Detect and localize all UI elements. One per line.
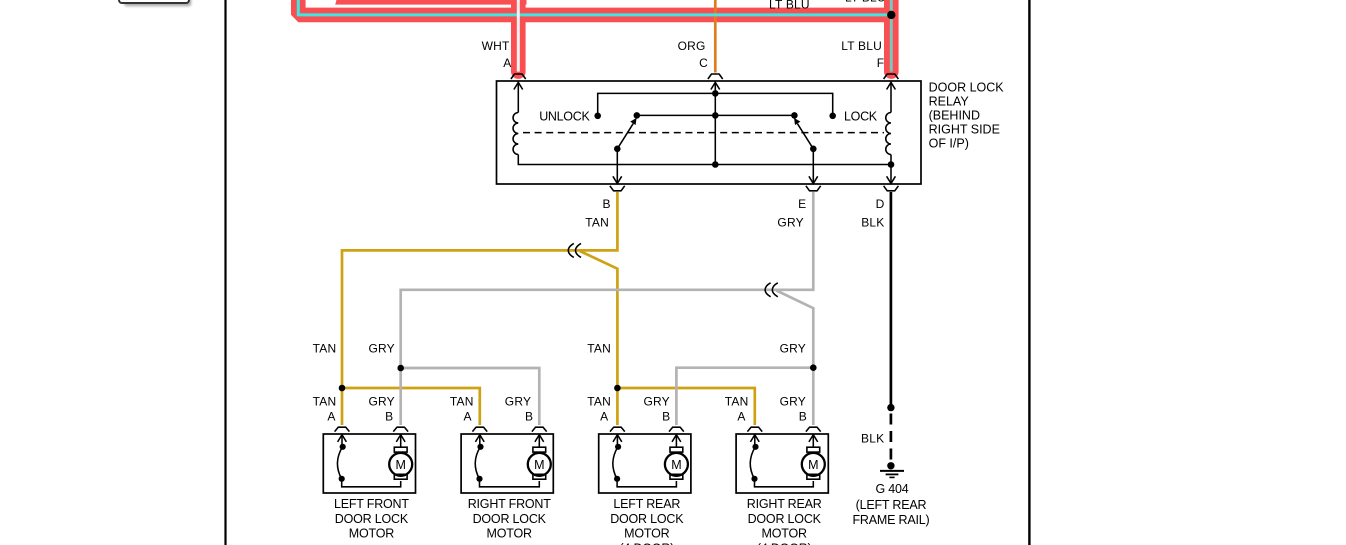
wire GRY from pin E: down, left, down to LF motor pin B bbox=[401, 192, 814, 425]
wire TAN from pin B: down, left, down to LF motor bbox=[342, 192, 617, 425]
node TAN rear branch bbox=[614, 385, 621, 392]
svg-text:TAN: TAN bbox=[450, 395, 474, 409]
svg-text:MOTOR: MOTOR bbox=[762, 527, 807, 541]
svg-text:A: A bbox=[327, 410, 335, 424]
svg-text:GRY: GRY bbox=[369, 342, 395, 356]
motor M4 RIGHT REAR DOOR LOCK MOTOR bbox=[736, 427, 828, 493]
node lock contact bbox=[829, 113, 836, 120]
center vertical bbox=[714, 93, 716, 164]
wire TAN branch to RF motor pin A bbox=[342, 388, 480, 425]
node unlock contact bbox=[594, 113, 601, 120]
pin A arrow bbox=[514, 82, 523, 89]
svg-text:B: B bbox=[799, 410, 807, 424]
coil-left bottom lead bbox=[517, 155, 519, 165]
svg-text:B: B bbox=[662, 410, 670, 424]
svg-text:TAN: TAN bbox=[313, 342, 337, 356]
switch arm left bbox=[617, 124, 633, 149]
connector arc pin E bbox=[806, 186, 821, 191]
wire ORG vertical to pin C bbox=[714, 0, 717, 73]
svg-text:LOCK: LOCK bbox=[844, 109, 878, 123]
svg-text:GRY: GRY bbox=[780, 395, 806, 409]
svg-text:RIGHT REAR: RIGHT REAR bbox=[747, 497, 822, 511]
wire BLK dashed section bbox=[890, 414, 893, 462]
svg-text:LT BLU: LT BLU bbox=[845, 0, 886, 5]
wire TAN branch: splice diagonal down to rear motors bbox=[580, 251, 618, 425]
svg-text:LEFT FRONT: LEFT FRONT bbox=[334, 497, 409, 511]
svg-text:UNLOCK: UNLOCK bbox=[539, 109, 590, 123]
motor M2 RIGHT FRONT DOOR LOCK MOTOR bbox=[461, 427, 553, 493]
node middle-rail right bbox=[791, 112, 798, 119]
node BLK wire bbox=[887, 404, 894, 411]
wire TAN branch to RR motor pin A bbox=[617, 388, 754, 425]
relay coil L2 (right, lock) bbox=[886, 113, 891, 155]
wire GRY branch: splice diagonal down to rear motors bbox=[776, 290, 813, 425]
svg-text:F: F bbox=[877, 56, 885, 70]
highlighted wire (top edge, cut off) bbox=[335, 0, 526, 5]
svg-text:(4 DOOR): (4 DOOR) bbox=[619, 541, 674, 545]
wire GRY branch to RF motor pin B bbox=[401, 368, 540, 425]
pin B drop from switch bbox=[616, 149, 618, 184]
pin A lead into coil bbox=[517, 82, 519, 112]
svg-text:TAN: TAN bbox=[313, 395, 337, 409]
svg-text:M: M bbox=[534, 458, 544, 472]
node switch-right pivot bbox=[810, 146, 817, 153]
pin E arrow bbox=[809, 176, 818, 183]
motor M3 LEFT REAR DOOR LOCK MOTOR bbox=[599, 427, 691, 493]
svg-text:BLK: BLK bbox=[861, 432, 884, 446]
relay actuation dashed line bbox=[523, 132, 884, 134]
svg-text:ORG: ORG bbox=[678, 39, 706, 53]
node TAN front branch bbox=[339, 385, 346, 392]
svg-text:M: M bbox=[808, 458, 818, 472]
relay U1 DOOR LOCK RELAY box bbox=[497, 81, 922, 184]
svg-text:GRY: GRY bbox=[644, 395, 670, 409]
connector arc pin F bbox=[884, 74, 899, 79]
connector arc pin C bbox=[708, 74, 723, 79]
splice symbol (( on TAN wire bbox=[568, 243, 574, 257]
svg-text:DOOR LOCK: DOOR LOCK bbox=[748, 512, 822, 526]
svg-text:MOTOR: MOTOR bbox=[487, 527, 532, 541]
middle rail bbox=[637, 114, 795, 116]
wire LT BLU (cyan core) horizontal run bbox=[298, 0, 891, 15]
switch arm left arrowhead bbox=[630, 118, 636, 125]
node coil / bottom rail bbox=[888, 161, 895, 168]
svg-text:M: M bbox=[671, 458, 681, 472]
svg-text:(LEFT REAR: (LEFT REAR bbox=[856, 498, 927, 512]
bottom rail bbox=[518, 164, 891, 166]
svg-text:RIGHT FRONT: RIGHT FRONT bbox=[468, 497, 552, 511]
wire BLK from pin D down bbox=[890, 192, 893, 408]
svg-text:A: A bbox=[503, 56, 511, 70]
node pin-C / top rail bbox=[712, 90, 719, 97]
svg-text:D: D bbox=[876, 197, 885, 211]
svg-text:LT BLU: LT BLU bbox=[841, 39, 882, 53]
svg-text:LT BLU: LT BLU bbox=[769, 0, 810, 12]
node center / middle rail bbox=[712, 112, 719, 119]
svg-text:DOOR LOCK: DOOR LOCK bbox=[610, 512, 684, 526]
node GRY rear branch bbox=[810, 364, 817, 371]
svg-text:TAN: TAN bbox=[587, 342, 611, 356]
svg-text:B: B bbox=[385, 410, 393, 424]
connector arc pin A bbox=[511, 74, 526, 79]
svg-text:MOTOR: MOTOR bbox=[349, 527, 394, 541]
highlight band: LT BLU wire corner-to-junction bbox=[298, 0, 891, 15]
node switch-left pivot bbox=[614, 146, 621, 153]
pin D drop bbox=[890, 165, 892, 184]
svg-text:A: A bbox=[600, 410, 608, 424]
pin C stem bbox=[714, 82, 716, 93]
svg-text:(4 DOOR): (4 DOOR) bbox=[757, 541, 812, 545]
switch arm right arrowhead bbox=[794, 118, 800, 125]
svg-text:B: B bbox=[525, 410, 533, 424]
svg-text:(BEHIND: (BEHIND bbox=[929, 109, 980, 123]
highlight band: LT BLU vertical through junction down to pin F bbox=[884, 0, 899, 72]
junction node on LT BLU wire bbox=[887, 11, 895, 19]
highlight band: WHT wire down to pin A bbox=[511, 0, 526, 72]
svg-text:DOOR LOCK: DOOR LOCK bbox=[335, 512, 409, 526]
splice symbol (( on GRY wire bbox=[765, 283, 771, 297]
svg-text:DOOR LOCK: DOOR LOCK bbox=[473, 512, 547, 526]
svg-text:MOTOR: MOTOR bbox=[624, 527, 669, 541]
switch arm right bbox=[797, 124, 813, 149]
svg-text:LEFT REAR: LEFT REAR bbox=[613, 497, 680, 511]
node GRY front branch bbox=[397, 365, 404, 372]
node center / bottom rail bbox=[712, 161, 719, 168]
svg-text:A: A bbox=[737, 410, 745, 424]
svg-text:FRAME RAIL): FRAME RAIL) bbox=[853, 513, 930, 527]
coil-right bottom lead bbox=[890, 155, 892, 165]
svg-text:RELAY: RELAY bbox=[929, 95, 970, 109]
left page border rule bbox=[224, 0, 226, 545]
svg-text:DOOR LOCK: DOOR LOCK bbox=[929, 81, 1005, 95]
svg-text:BLK: BLK bbox=[861, 215, 884, 229]
pin B arrow bbox=[613, 176, 622, 183]
svg-text:OF I/P): OF I/P) bbox=[929, 137, 969, 151]
svg-text:E: E bbox=[798, 197, 806, 211]
svg-text:M: M bbox=[395, 458, 405, 472]
svg-text:TAN: TAN bbox=[585, 215, 609, 229]
right page border rule bbox=[1028, 0, 1030, 545]
wire LT BLU (core) vertical to pin F bbox=[890, 0, 893, 72]
svg-text:GRY: GRY bbox=[780, 342, 806, 356]
ground G404 symbol bbox=[887, 462, 894, 469]
pin D arrow bbox=[887, 176, 896, 183]
svg-text:TAN: TAN bbox=[725, 395, 749, 409]
pin F lead into coil bbox=[890, 82, 892, 112]
wire GRY branch to LR motor pin B bbox=[676, 368, 813, 425]
svg-text:C: C bbox=[699, 56, 708, 70]
connector arc pin D bbox=[884, 186, 899, 191]
svg-text:GRY: GRY bbox=[505, 395, 531, 409]
pin C arrow bbox=[711, 82, 720, 89]
pin E drop from switch bbox=[812, 149, 814, 184]
svg-text:WHT: WHT bbox=[482, 39, 510, 53]
svg-text:RIGHT SIDE: RIGHT SIDE bbox=[929, 123, 1000, 137]
svg-text:GRY: GRY bbox=[369, 395, 395, 409]
svg-text:G 404: G 404 bbox=[875, 482, 908, 496]
svg-text:A: A bbox=[463, 410, 471, 424]
connector arc pin B bbox=[610, 186, 625, 191]
svg-text:B: B bbox=[602, 197, 610, 211]
wire WHT (white core) bbox=[517, 0, 520, 72]
pin F arrow bbox=[887, 82, 896, 89]
motor M1 LEFT FRONT DOOR LOCK MOTOR bbox=[323, 427, 415, 493]
svg-text:TAN: TAN bbox=[587, 395, 611, 409]
relay coil L1 (left, unlock) bbox=[513, 113, 518, 155]
svg-text:GRY: GRY bbox=[777, 215, 803, 229]
node middle-rail left bbox=[634, 112, 641, 119]
top rail from pin C bbox=[598, 93, 833, 115]
